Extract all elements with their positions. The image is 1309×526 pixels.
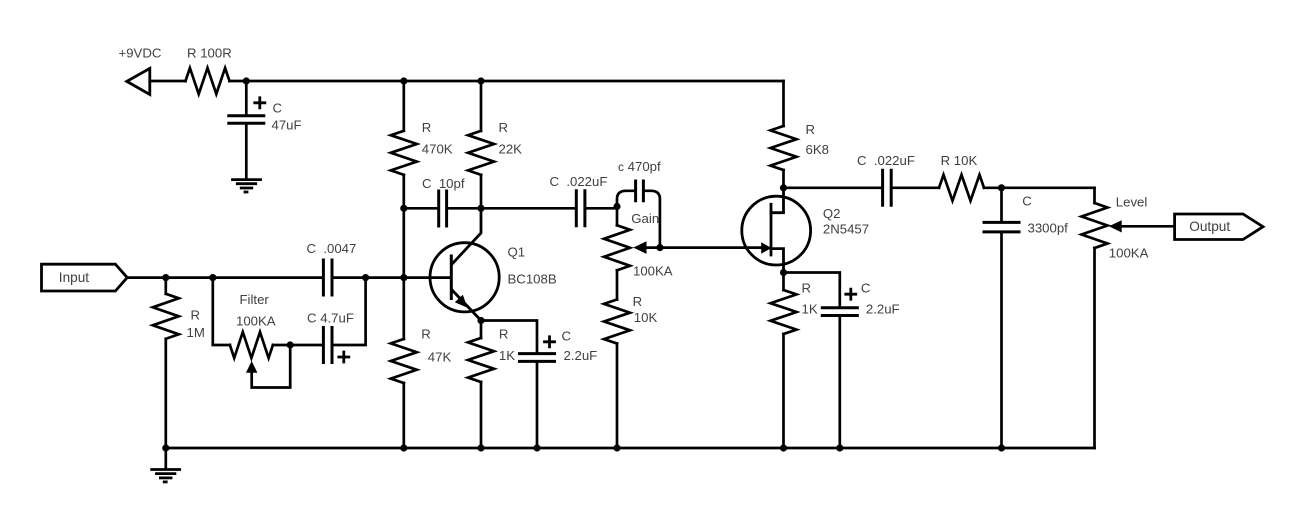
svg-text:R: R (191, 307, 201, 322)
plus polarity mark C4.7uF (339, 352, 349, 362)
node Vcc junction (243, 77, 250, 84)
wire R1K to ground rail (480, 382, 483, 448)
node input node (162, 274, 169, 281)
wire filter pot right lead (273, 344, 290, 347)
wire emitter to R1K (480, 321, 483, 339)
plus polarity mark C2.2uF Q1 (545, 337, 555, 347)
wire base node to R47K (402, 278, 405, 339)
node rail/R470K junction (400, 77, 407, 84)
wire rail corner to R6K8 (782, 81, 785, 126)
svg-text:100KA: 100KA (1109, 245, 1149, 260)
wire C.022uF out to R10K (893, 186, 939, 189)
wire drain to C.022uF out (784, 186, 882, 189)
svg-text:R: R (499, 120, 509, 135)
svg-text:6K8: 6K8 (806, 142, 829, 157)
node rail gnd C2.2 Q1 (533, 444, 540, 451)
wire corner to level pot (1093, 188, 1096, 203)
wire C10pf left lead (404, 207, 438, 210)
svg-text:470K: 470K (422, 142, 453, 157)
resistor R 100R (186, 68, 230, 94)
ground symbol main ground (152, 470, 180, 482)
wire R1 to Vcc node (230, 80, 247, 83)
svg-text:2.2uF: 2.2uF (866, 302, 900, 317)
wire rail to R22K (480, 81, 483, 131)
svg-text:R: R (806, 122, 816, 137)
wire R6K8 to drain node (782, 170, 785, 188)
svg-text:R: R (421, 326, 431, 341)
svg-text:Filter: Filter (240, 292, 270, 307)
node C3300pf node (998, 184, 1005, 191)
node C4.7uF top junction (362, 274, 369, 281)
node rail gnd R10K gain (613, 444, 620, 451)
svg-text:47uF: 47uF (272, 117, 302, 132)
wire level wiper to output flag (1121, 225, 1175, 228)
wire input node to R1M (164, 278, 167, 294)
wire power arrow to R1 (150, 80, 186, 83)
node rail gnd C2.2 Q2 (836, 444, 843, 451)
node collector node junction (477, 205, 484, 212)
wire top supply rail (246, 80, 783, 83)
svg-text:BC108B: BC108B (508, 271, 557, 286)
node filter/C4.7uF junction (287, 341, 294, 348)
svg-text:Gain: Gain (631, 211, 659, 226)
node emitter node (477, 317, 484, 324)
svg-text:C .0047: C .0047 (307, 241, 357, 256)
wire C2.2uF to ground rail (536, 363, 539, 448)
svg-text:R 100R: R 100R (187, 45, 232, 60)
node C10pf left junction (400, 205, 407, 212)
wire R1K Q2 to ground rail (782, 334, 785, 448)
node rail gnd 1 (162, 444, 169, 451)
node rail gnd R1K Q2 (780, 444, 787, 451)
svg-text:R: R (802, 280, 812, 295)
node wiper/C470pf junction (656, 244, 663, 251)
gain pot wiper arrow (633, 241, 646, 254)
wire R10K to ground rail (616, 344, 619, 449)
svg-text:+9VDC: +9VDC (119, 45, 162, 60)
wire C10pf right lead (448, 207, 481, 210)
wire source to C2.2uF Q2 (784, 273, 840, 307)
wire R470K down through C10pf node to base node (402, 175, 405, 278)
svg-text:C: C (1022, 193, 1032, 208)
svg-text:100KA: 100KA (633, 263, 673, 278)
resistor R 10K (output series) (939, 175, 984, 201)
svg-text:R 10K: R 10K (941, 153, 978, 168)
svg-text:R: R (499, 326, 509, 341)
wire gain node to pot (616, 207, 619, 226)
wire bottom ground rail (166, 447, 1095, 450)
svg-text:c 470pf: c 470pf (618, 159, 661, 174)
svg-text:C 10pf: C 10pf (422, 176, 465, 191)
node base node junction (400, 274, 407, 281)
node filter tap node (209, 274, 216, 281)
wire input flag to R1M node (127, 276, 166, 279)
wire R10K to level corner (984, 186, 1095, 189)
output connector flag (1175, 214, 1263, 240)
svg-text:10K: 10K (634, 310, 658, 325)
wire level pot to ground rail (1093, 248, 1096, 448)
svg-text:1M: 1M (187, 325, 205, 340)
wire Vcc to C47uF (245, 81, 248, 114)
node rail gnd C3300 (998, 444, 1005, 451)
input connector flag (42, 264, 128, 291)
svg-text:1K: 1K (802, 302, 818, 317)
wire source to R1K (782, 273, 785, 291)
svg-text:Input: Input (59, 270, 89, 285)
power connector +9VDC arrow (127, 68, 150, 94)
plus polarity mark C47uF (255, 98, 265, 108)
wire filter node to C4.7uF (290, 344, 322, 347)
svg-text:100KA: 100KA (236, 314, 276, 329)
wire C2.2uF Q2 to ground rail (838, 317, 841, 448)
svg-text:C: C (273, 100, 283, 115)
svg-text:R: R (633, 294, 643, 309)
svg-text:C: C (861, 280, 871, 295)
wire C47uF to ground (245, 125, 248, 179)
svg-text:C: C (562, 329, 572, 344)
svg-text:C .022uF: C .022uF (550, 174, 608, 189)
filter pot wiper arrow (246, 361, 258, 373)
svg-text:R: R (422, 120, 432, 135)
svg-text:C .022uF: C .022uF (857, 153, 915, 168)
plus polarity mark C2.2uF Q2 (846, 289, 856, 299)
wire filter wiper return (252, 345, 291, 388)
node rail/R22K junction (477, 77, 484, 84)
node gain top node (613, 203, 620, 210)
wire C3300pf to ground rail (1000, 233, 1003, 448)
capacitor C 470pf (bypass over gain pot) (617, 191, 634, 207)
svg-text:2N5457: 2N5457 (823, 222, 869, 237)
wire filter tap down (213, 278, 230, 345)
svg-text:Q2: Q2 (823, 206, 841, 221)
wire R22K to collector node (480, 175, 483, 209)
node rail gnd R47K (400, 444, 407, 451)
wire rail to main ground (164, 448, 167, 468)
wire node to C3300pf (1000, 188, 1003, 221)
wire rail to R470K (402, 81, 405, 131)
svg-text:Output: Output (1189, 219, 1230, 234)
wire input signal line (166, 276, 322, 279)
level pot wiper arrow (1109, 220, 1122, 232)
wire C4.7uF to signal line (333, 278, 365, 345)
wire R1M to ground rail (164, 339, 167, 448)
wire C.022uF to gain node (586, 207, 617, 210)
transistor Q2 2N5457 (742, 188, 811, 273)
svg-text:22K: 22K (499, 142, 523, 157)
svg-text:Level: Level (1116, 194, 1148, 209)
svg-text:1K: 1K (499, 348, 515, 363)
svg-text:2.2uF: 2.2uF (564, 348, 598, 363)
svg-text:C 4.7uF: C 4.7uF (307, 311, 354, 326)
wire collector node to C.022uF (481, 207, 575, 210)
wire wiper to gate (646, 246, 763, 249)
wire R47K to ground rail (402, 383, 405, 448)
svg-text:3300pf: 3300pf (1028, 220, 1069, 235)
capacitor C .0047 (323, 260, 332, 295)
transistor Q1 BC108B (430, 208, 499, 320)
node source node (780, 269, 787, 276)
wire signal to base (333, 276, 450, 279)
svg-text:47K: 47K (428, 349, 452, 364)
node rail gnd R1K Q1 (477, 444, 484, 451)
wire emitter to C2.2uF (481, 321, 537, 353)
node drain node (780, 184, 787, 191)
wire pot to R10K (616, 270, 619, 299)
svg-text:Q1: Q1 (508, 244, 526, 259)
ground symbol power ground (233, 180, 261, 192)
